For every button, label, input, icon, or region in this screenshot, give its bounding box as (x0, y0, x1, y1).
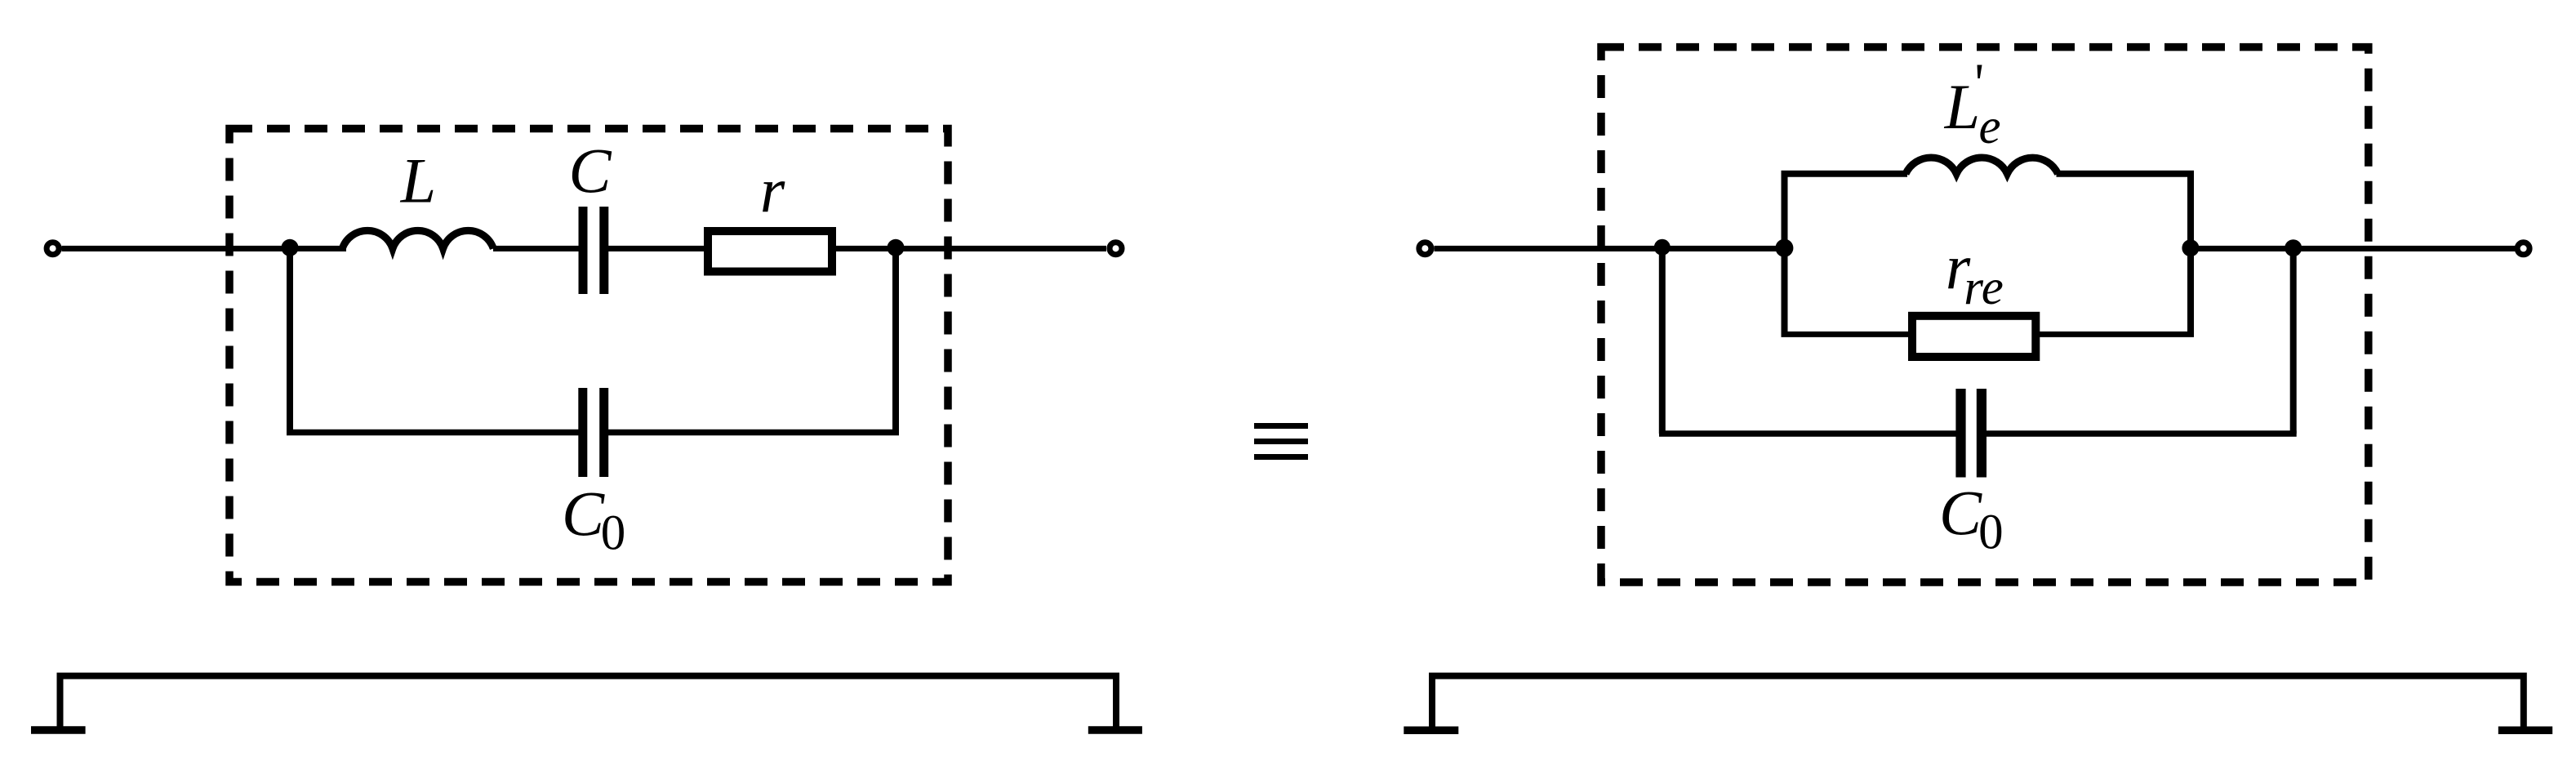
equivalence symbol (1254, 423, 1308, 429)
wire (inner left vertical) (1782, 174, 1788, 335)
capacitor C0 plate 1 (578, 388, 587, 477)
svg-text:C: C (1939, 478, 1982, 549)
wire (outer left vertical) (1659, 245, 1666, 434)
resistor r (708, 231, 832, 272)
svg-text:C: C (568, 136, 612, 207)
prime mark of L'e (1978, 65, 1982, 79)
bracket foot (bottom right, right) (2498, 726, 2552, 734)
resistor r_re (1912, 316, 2035, 357)
bracket foot (bottom left, right) (1088, 726, 1142, 734)
svg-text:L: L (400, 145, 436, 216)
svg-text:0: 0 (1978, 505, 2004, 560)
wire (top branch right segment) (2057, 171, 2195, 177)
inductor L'e (1906, 158, 2058, 174)
svg-text:L: L (1944, 71, 1980, 142)
node (outer right) (2285, 239, 2302, 256)
terminal (left circuit input) (47, 243, 59, 255)
bracket foot (bottom right, left) (1404, 726, 1458, 734)
capacitor C plate 2 (599, 207, 608, 294)
wire (bottom branch left segment) (1782, 332, 1910, 337)
terminal (right circuit output) (2517, 243, 2529, 255)
capacitor C0 plate 2 (599, 388, 608, 477)
inductor L (342, 230, 493, 248)
svg-text:r: r (760, 154, 785, 225)
node B (888, 239, 905, 256)
node (outer left) (1654, 239, 1671, 256)
wire (C0 bottom branch right) (1986, 430, 2297, 437)
wire (bottom branch left of C0) (287, 430, 579, 436)
svg-text:re: re (1964, 261, 2004, 315)
wire (right vertical from node B) (892, 245, 899, 433)
wire (right input lead) (1435, 246, 1788, 252)
wire (top branch left segment) (1782, 171, 1908, 177)
bracket foot (bottom left, left) (31, 726, 86, 734)
capacitor C0 (right) plate 1 (1955, 389, 1965, 478)
capacitor C plate 1 (579, 207, 588, 294)
dashed box (left network) (229, 129, 948, 582)
bracket (bottom left) (60, 676, 1117, 728)
wire (inner right vertical) (2187, 174, 2194, 335)
svg-text:C: C (562, 479, 605, 550)
svg-text:0: 0 (601, 506, 626, 561)
wire (bottom branch right segment) (2039, 332, 2194, 337)
bracket (bottom right) (1432, 676, 2524, 728)
node (inner right) (2182, 239, 2199, 256)
wire (output lead) (2293, 246, 2515, 252)
svg-text:e: e (1978, 100, 2000, 154)
wire (inner right to outer right) (2191, 246, 2296, 252)
wire (input lead to node A) (62, 246, 295, 252)
wire (node A to inductor) (286, 246, 346, 252)
capacitor C0 (right) plate 2 (1977, 389, 1987, 478)
terminal (right circuit input) (1419, 243, 1431, 255)
node A (282, 239, 299, 256)
wire (outer right vertical) (2290, 245, 2297, 434)
terminal (left circuit output) (1110, 243, 1122, 255)
wire (resistor to output terminal) (835, 246, 1106, 252)
node (inner left) (1775, 239, 1793, 257)
wire (left vertical from node A) (287, 245, 293, 433)
wire (C0 bottom branch left) (1659, 430, 1956, 437)
wire (bottom branch right of C0) (608, 430, 899, 436)
dashed box (right network) (1601, 47, 2369, 582)
wire (inductor to capacitor C) (493, 246, 579, 252)
wire (capacitor C to resistor r) (608, 246, 705, 252)
